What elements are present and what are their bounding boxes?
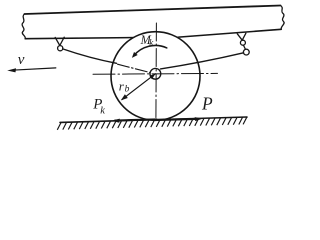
vertical centerline: [155, 23, 158, 120]
P_k arrowhead: [112, 119, 120, 123]
left arm axis (dash-dot inside wheel): [118, 64, 151, 72]
M_k arrowhead: [132, 52, 138, 58]
right lower pin: [243, 49, 249, 55]
wheel (rim): [111, 32, 200, 121]
velocity arrow v: [12, 68, 56, 70]
shackle link: [243, 45, 245, 49]
moment arc M_k: [134, 45, 167, 55]
v arrowhead: [7, 68, 16, 72]
ground hatching: [57, 117, 247, 130]
r_b outer arrowhead: [121, 94, 128, 100]
left fork bracket V: [55, 37, 64, 45]
beam bottom edge: [25, 29, 281, 38]
beam right break (zigzag): [281, 6, 285, 30]
P arrowhead: [195, 117, 203, 121]
right upper pin: [240, 40, 245, 45]
right arm (hub to lower pin): [161, 53, 244, 69]
left pin: [58, 46, 63, 51]
horizontal centerline: [93, 72, 218, 75]
svg-text:k: k: [100, 106, 105, 117]
force arrow P_k: [115, 119, 157, 120]
svg-text:P: P: [201, 93, 213, 113]
radius line r_b: [122, 74, 155, 100]
beam left break (zigzag): [22, 14, 25, 39]
left arm (pin to wheel rim): [63, 49, 117, 63]
right fork bracket V: [237, 33, 246, 40]
svg-text:v: v: [18, 52, 25, 68]
svg-text:b: b: [125, 85, 130, 95]
force arrow P: [158, 119, 198, 120]
r_b center arrowhead: [149, 74, 155, 79]
hub (axle): [150, 68, 161, 79]
ground line: [60, 117, 247, 122]
beam top edge: [25, 6, 281, 15]
